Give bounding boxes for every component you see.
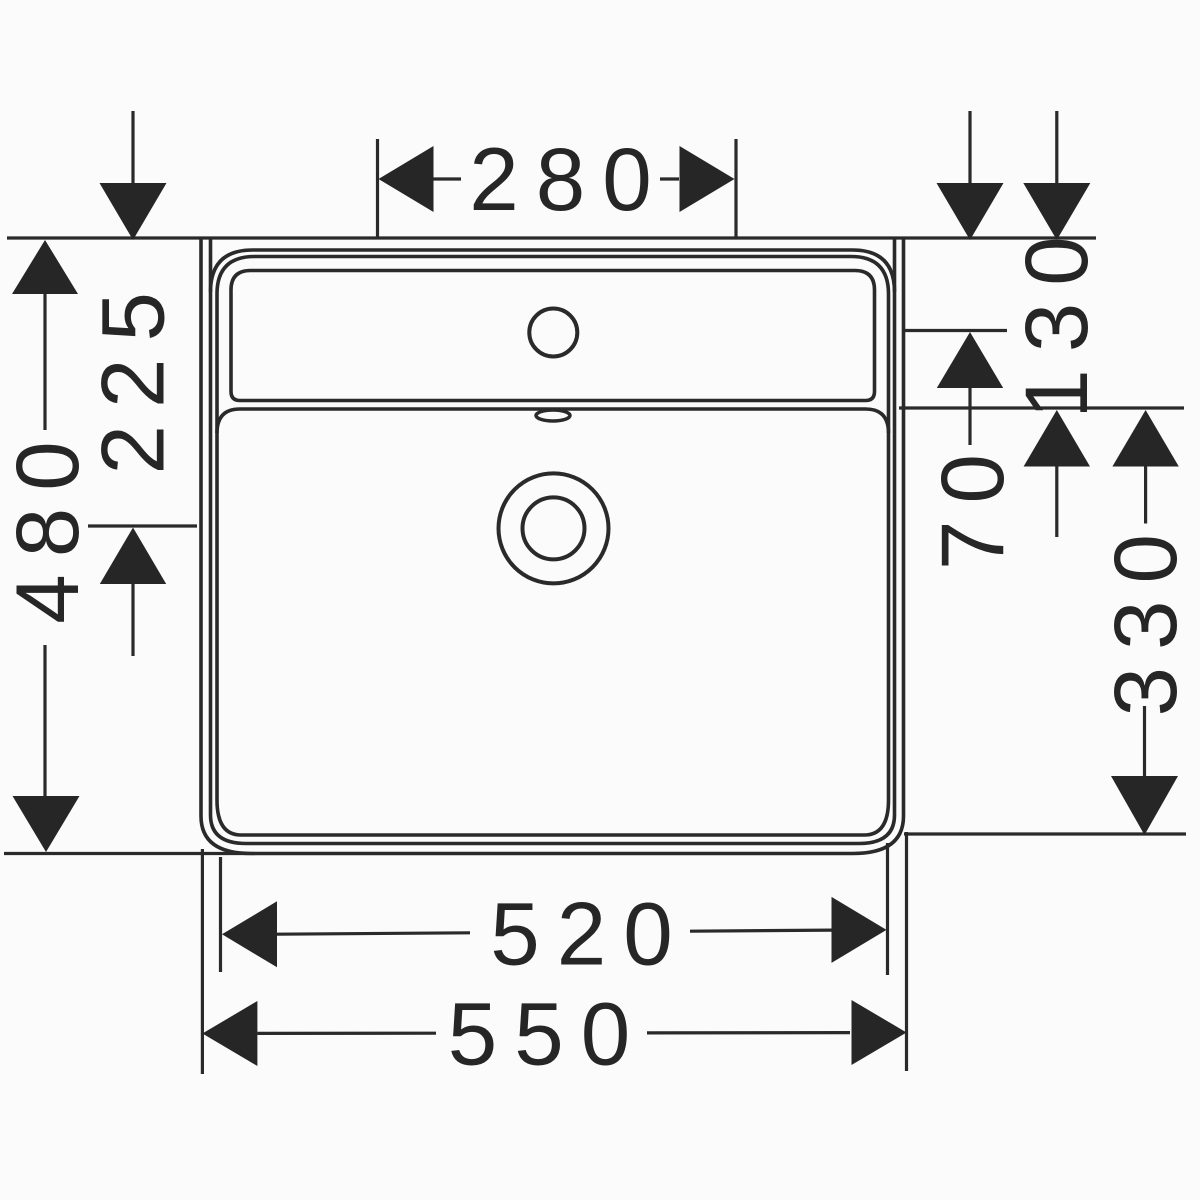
dim 225 lower stem — [131, 584, 134, 656]
dim 550 right arrowhead — [852, 1000, 907, 1065]
dim 280 left arrowhead — [379, 146, 434, 212]
dim 130 top arrowhead — [1023, 183, 1090, 240]
wall line — [7, 236, 1096, 239]
svg-text:520: 520 — [490, 884, 690, 984]
dim 70 arrow tail stem — [968, 388, 971, 445]
dim 330 upper stem — [1144, 467, 1147, 524]
deck edge extension line — [899, 406, 1184, 409]
dim 225 top arrow stem — [131, 111, 134, 184]
dim 550 left arrowhead — [202, 1001, 257, 1066]
dim 70 top arrowhead — [937, 183, 1004, 240]
dim 280 line right segment — [660, 177, 679, 180]
dim 70 extension line — [905, 329, 1007, 332]
dim 520 line left segment — [277, 933, 470, 934]
dim 330 bottom arrowhead — [1111, 776, 1178, 835]
dim 520 right extension line — [886, 843, 889, 975]
dim 520 line right segment — [690, 930, 832, 931]
svg-text:280: 280 — [469, 129, 669, 229]
svg-text:70: 70 — [922, 437, 1022, 570]
basin outer outline — [201, 238, 904, 854]
rim top inner edge — [211, 250, 895, 292]
dim 280 line left segment — [433, 177, 461, 180]
svg-text:550: 550 — [448, 984, 648, 1084]
basin rim inner outline — [211, 238, 895, 844]
dim 225 bottom arrowhead — [100, 528, 166, 585]
dim 130 bottom arrowhead — [1024, 410, 1090, 467]
overflow slot — [536, 410, 570, 421]
bowl bottom extension line — [904, 832, 1186, 835]
dim 225 top arrowhead — [100, 183, 167, 240]
svg-text:330: 330 — [1095, 517, 1195, 717]
drain inner circle — [523, 497, 585, 559]
dim 480 bottom arrowhead — [13, 796, 80, 852]
dim 480 lower stem — [43, 645, 46, 797]
dim 520 left arrowhead — [222, 901, 277, 967]
dim 550 line left segment — [257, 1032, 436, 1035]
dim 480 bottom extension line — [4, 852, 255, 855]
dim 280 left extension line — [376, 139, 379, 238]
dim 130 top arrow stem — [1055, 111, 1058, 184]
dim 480 upper stem — [43, 292, 46, 430]
dim 225 extension line — [88, 524, 197, 527]
dim 550 left extension line — [201, 849, 204, 1074]
dim 280 right extension line — [734, 139, 737, 238]
svg-text:225: 225 — [82, 275, 182, 475]
dim 550 line right segment — [647, 1031, 850, 1035]
dim 280 right arrowhead — [680, 146, 735, 212]
dim 70 arrowhead — [937, 332, 1003, 388]
dim 520 left extension line — [219, 857, 222, 972]
dim 130 lower stem — [1055, 467, 1058, 538]
svg-text:130: 130 — [1006, 219, 1106, 419]
dim 70 top arrow stem — [968, 111, 971, 184]
faucet hole — [529, 309, 577, 357]
dim 330 lower stem — [1143, 706, 1146, 776]
dim 330 top arrowhead — [1112, 410, 1178, 467]
bowl outline — [217, 257, 889, 836]
dim 520 right arrowhead — [832, 897, 887, 963]
bowl top edge line — [217, 409, 889, 433]
dim 550 right extension line — [905, 832, 908, 1071]
tap deck contour — [231, 271, 875, 401]
drain outer circle — [499, 473, 609, 583]
dim 480 top arrowhead — [12, 240, 78, 294]
